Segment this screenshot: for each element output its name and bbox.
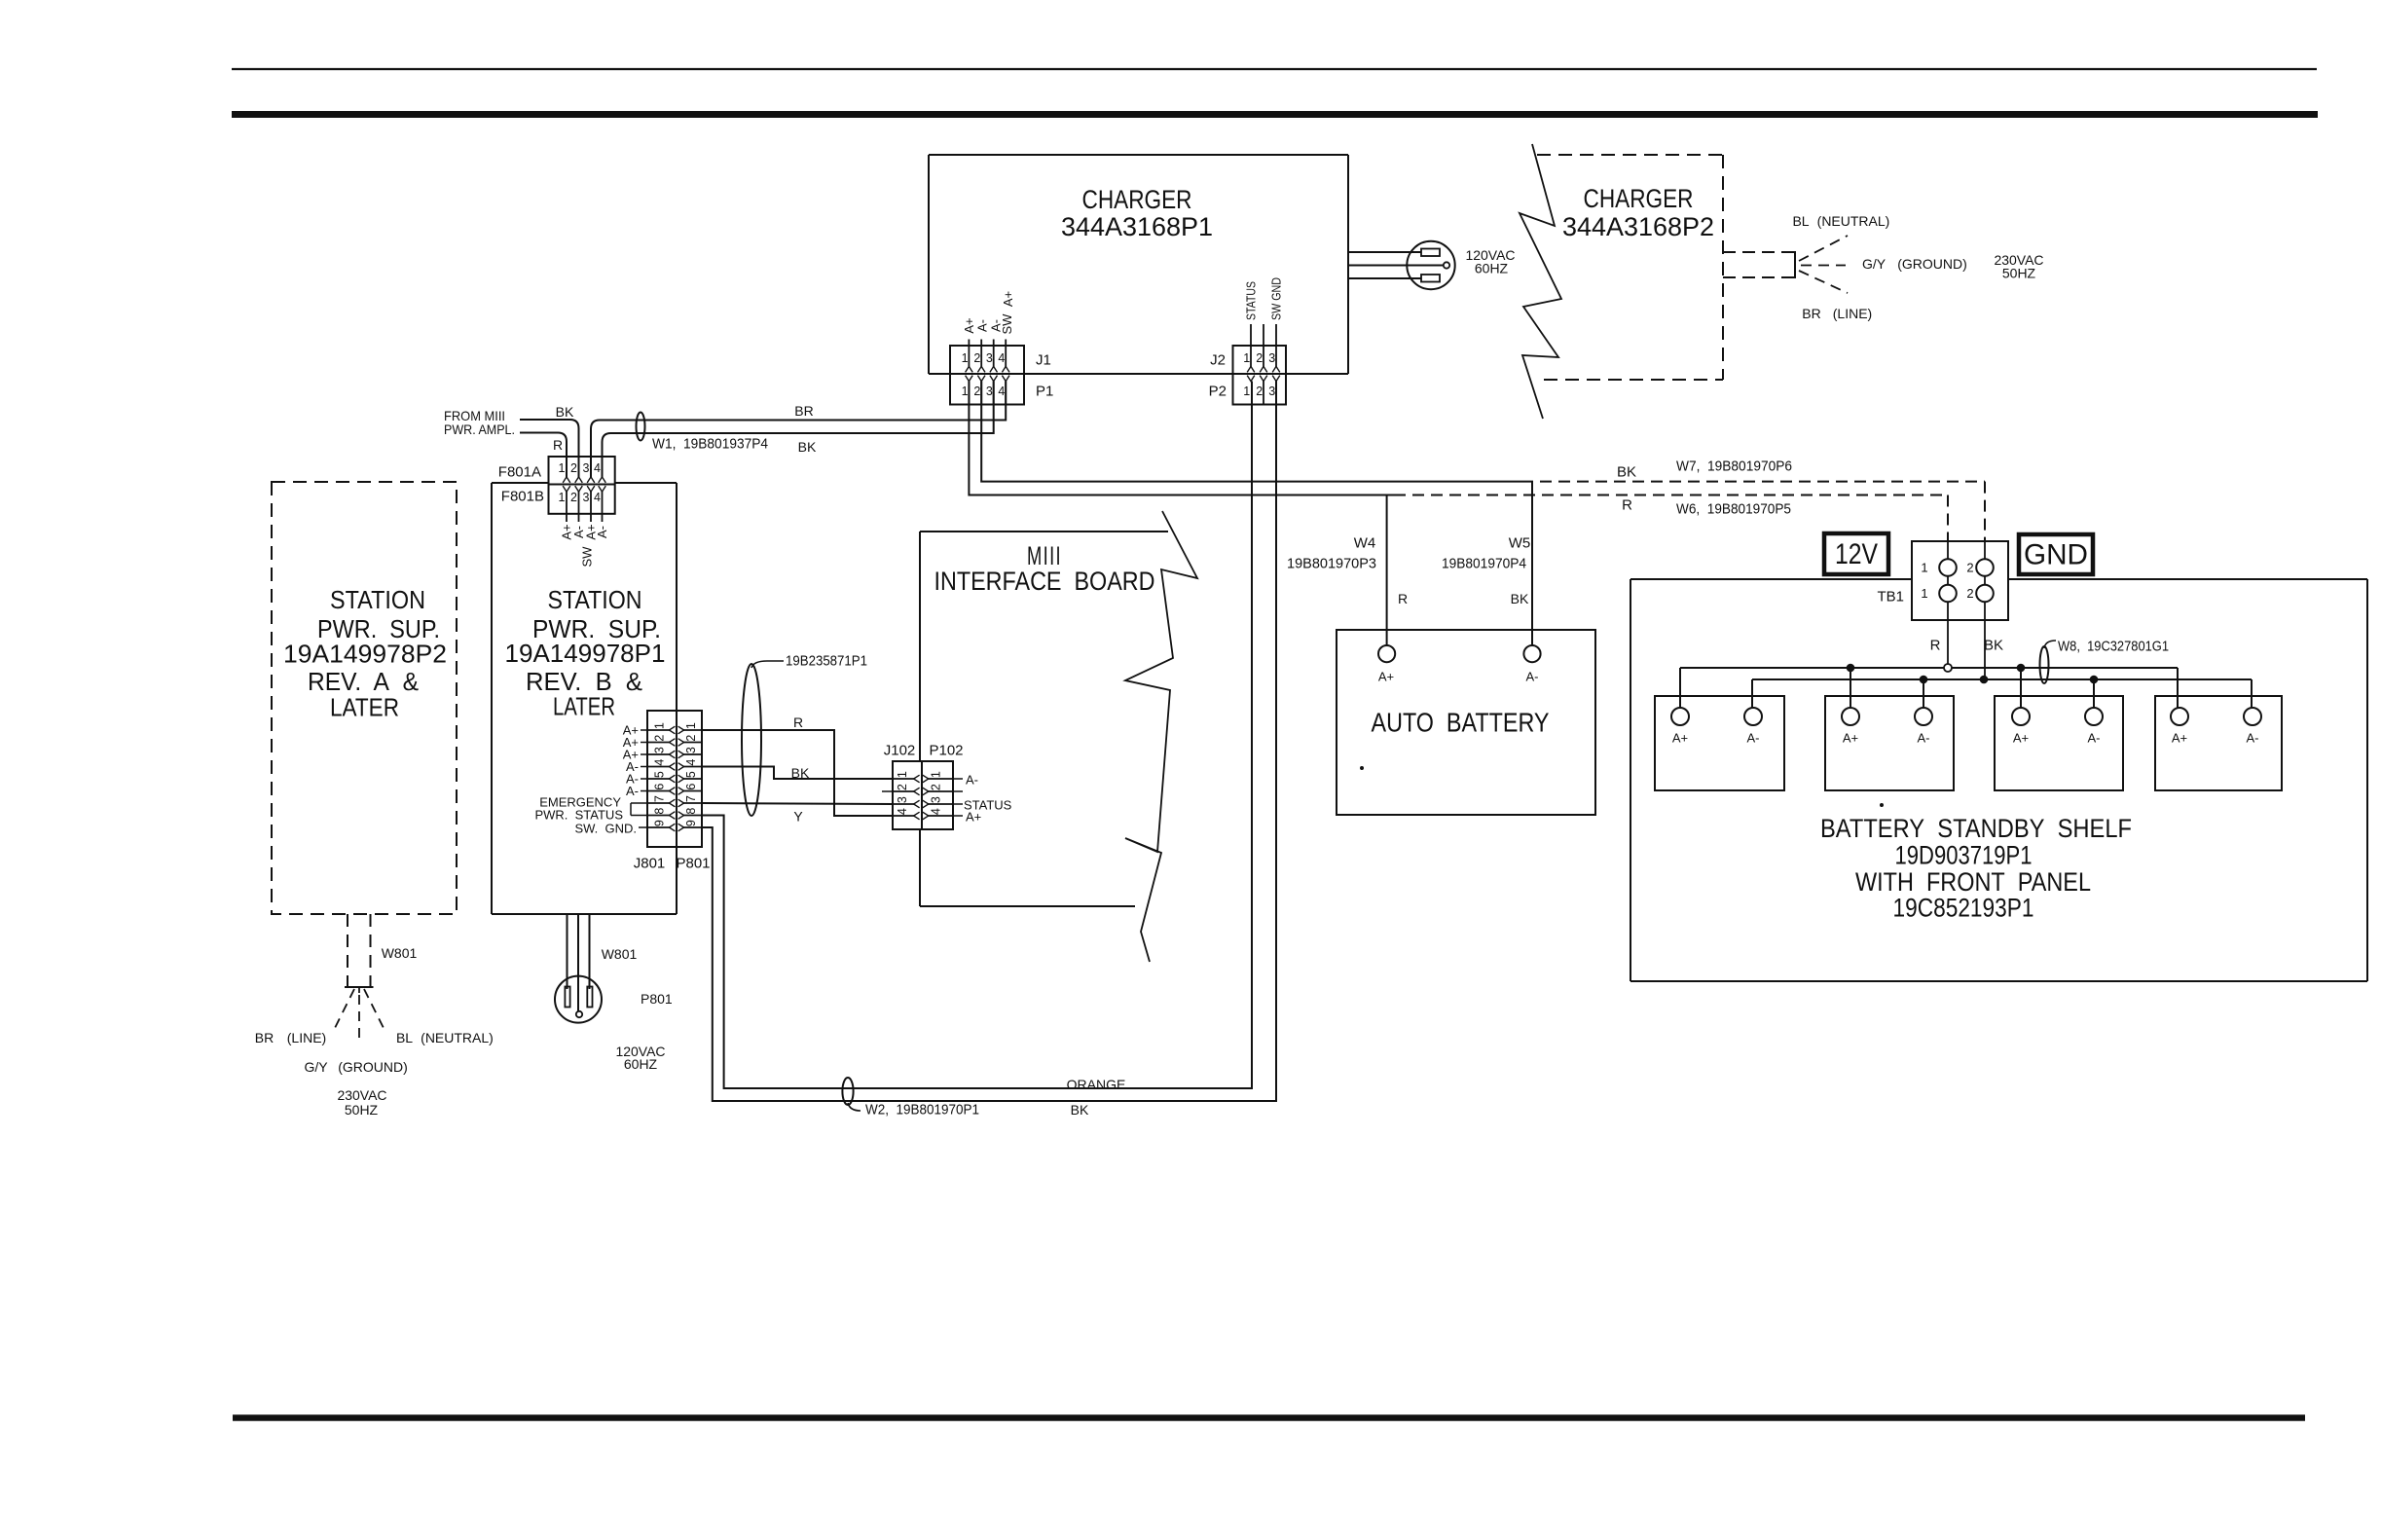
svg-text:J801: J801 bbox=[634, 856, 666, 872]
svg-text:BL: BL bbox=[396, 1030, 413, 1045]
svg-text:BK: BK bbox=[556, 404, 574, 420]
svg-text:BK: BK bbox=[1511, 591, 1529, 606]
svg-text:(NEUTRAL): (NEUTRAL) bbox=[421, 1030, 494, 1045]
svg-text:19D903719P1: 19D903719P1 bbox=[1895, 841, 2033, 870]
svg-text:A-: A- bbox=[975, 319, 990, 332]
svg-text:R: R bbox=[793, 715, 803, 730]
svg-text:SW: SW bbox=[580, 546, 595, 568]
svg-text:(NEUTRAL): (NEUTRAL) bbox=[1817, 213, 1890, 229]
svg-text:50HZ: 50HZ bbox=[345, 1102, 379, 1118]
svg-text:A+: A+ bbox=[1843, 731, 1858, 746]
svg-text:3: 3 bbox=[930, 796, 943, 803]
svg-text:SW. GND.: SW. GND. bbox=[574, 822, 637, 836]
svg-text:A+: A+ bbox=[966, 810, 981, 825]
svg-text:1: 1 bbox=[962, 385, 969, 398]
svg-text:PWR. STATUS: PWR. STATUS bbox=[534, 808, 623, 823]
svg-text:1: 1 bbox=[930, 771, 943, 778]
svg-text:ORANGE: ORANGE bbox=[1067, 1077, 1126, 1092]
svg-text:344A3168P1: 344A3168P1 bbox=[1061, 212, 1213, 241]
svg-text:3: 3 bbox=[684, 747, 698, 753]
svg-text:R: R bbox=[1930, 638, 1941, 654]
svg-text:19C852193P1: 19C852193P1 bbox=[1893, 894, 2034, 923]
svg-text:4: 4 bbox=[930, 808, 943, 815]
svg-text:W1, 19B801937P4: W1, 19B801937P4 bbox=[652, 436, 768, 453]
svg-text:7: 7 bbox=[653, 795, 667, 802]
svg-text:2: 2 bbox=[570, 491, 577, 504]
svg-text:6: 6 bbox=[653, 784, 667, 790]
svg-text:1: 1 bbox=[653, 722, 667, 729]
svg-text:2: 2 bbox=[973, 351, 980, 365]
svg-text:2: 2 bbox=[930, 784, 943, 790]
svg-text:1: 1 bbox=[684, 722, 698, 729]
svg-text:W2, 19B801970P1: W2, 19B801970P1 bbox=[865, 1102, 979, 1118]
svg-text:A+: A+ bbox=[1001, 291, 1015, 307]
svg-text:1: 1 bbox=[896, 771, 909, 778]
svg-text:2: 2 bbox=[653, 735, 667, 742]
svg-text:BATTERY STANDBY SHELF: BATTERY STANDBY SHELF bbox=[1820, 814, 2132, 843]
svg-text:A+: A+ bbox=[1672, 731, 1688, 746]
svg-text:G/Y: G/Y bbox=[1862, 256, 1886, 272]
svg-text:3: 3 bbox=[1268, 385, 1275, 398]
svg-text:G/Y: G/Y bbox=[304, 1059, 328, 1075]
svg-text:A-: A- bbox=[595, 526, 609, 538]
svg-text:W6, 19B801970P5: W6, 19B801970P5 bbox=[1676, 501, 1791, 518]
svg-text:P801: P801 bbox=[676, 856, 710, 872]
svg-text:2: 2 bbox=[896, 784, 909, 790]
svg-text:1: 1 bbox=[1243, 385, 1250, 398]
svg-text:3: 3 bbox=[1268, 351, 1275, 365]
svg-text:4: 4 bbox=[998, 351, 1005, 365]
svg-text:STATION: STATION bbox=[548, 585, 642, 614]
svg-text:PWR. AMPL.: PWR. AMPL. bbox=[444, 422, 515, 437]
svg-text:J102: J102 bbox=[884, 743, 916, 759]
svg-text:4: 4 bbox=[594, 461, 601, 475]
svg-text:BK: BK bbox=[1617, 464, 1636, 481]
svg-text:1: 1 bbox=[1921, 561, 1927, 575]
svg-text:4: 4 bbox=[594, 491, 601, 504]
svg-text:A-: A- bbox=[2088, 731, 2101, 746]
svg-text:R: R bbox=[1398, 591, 1408, 606]
svg-text:CHARGER: CHARGER bbox=[1584, 184, 1694, 213]
svg-text:R: R bbox=[1622, 497, 1632, 514]
svg-text:(LINE): (LINE) bbox=[1833, 306, 1872, 321]
svg-text:1: 1 bbox=[1243, 351, 1250, 365]
svg-text:A-: A- bbox=[626, 784, 639, 798]
svg-text:SW GND: SW GND bbox=[1269, 277, 1284, 320]
svg-text:BK: BK bbox=[1071, 1102, 1089, 1118]
svg-text:BR: BR bbox=[255, 1030, 274, 1045]
svg-text:(GROUND): (GROUND) bbox=[338, 1059, 408, 1075]
svg-text:STATUS: STATUS bbox=[1244, 281, 1259, 320]
svg-text:1: 1 bbox=[962, 351, 969, 365]
svg-text:W801: W801 bbox=[382, 945, 418, 961]
svg-text:REV. A &: REV. A & bbox=[308, 667, 419, 696]
svg-text:P801: P801 bbox=[641, 991, 673, 1007]
svg-text:STATION: STATION bbox=[330, 585, 425, 614]
svg-text:5: 5 bbox=[653, 771, 667, 778]
svg-text:3: 3 bbox=[583, 461, 590, 475]
svg-text:2: 2 bbox=[1966, 586, 1973, 601]
svg-text:BK: BK bbox=[791, 765, 810, 781]
svg-text:2: 2 bbox=[1256, 385, 1263, 398]
svg-text:8: 8 bbox=[653, 808, 667, 815]
svg-text:Y: Y bbox=[793, 809, 803, 825]
svg-text:19B801970P3: 19B801970P3 bbox=[1287, 556, 1376, 572]
svg-text:344A3168P2: 344A3168P2 bbox=[1562, 212, 1714, 241]
svg-text:60HZ: 60HZ bbox=[624, 1056, 658, 1072]
svg-text:A-: A- bbox=[2247, 731, 2259, 746]
svg-text:A+: A+ bbox=[2013, 731, 2029, 746]
svg-text:6: 6 bbox=[684, 784, 698, 790]
svg-text:230VAC: 230VAC bbox=[337, 1087, 386, 1103]
svg-text:3: 3 bbox=[896, 796, 909, 803]
svg-text:J2: J2 bbox=[1210, 352, 1226, 369]
svg-text:INTERFACE BOARD: INTERFACE BOARD bbox=[934, 567, 1155, 596]
svg-text:19A149978P2: 19A149978P2 bbox=[283, 640, 447, 669]
svg-text:50HZ: 50HZ bbox=[2002, 266, 2036, 281]
svg-text:4: 4 bbox=[896, 808, 909, 815]
svg-text:5: 5 bbox=[684, 771, 698, 778]
svg-text:BR: BR bbox=[1802, 306, 1820, 321]
svg-text:9: 9 bbox=[684, 820, 698, 826]
svg-text:7: 7 bbox=[684, 795, 698, 802]
svg-text:2: 2 bbox=[973, 385, 980, 398]
svg-text:2: 2 bbox=[1256, 351, 1263, 365]
svg-text:4: 4 bbox=[653, 759, 667, 766]
svg-text:LATER: LATER bbox=[330, 693, 399, 722]
svg-text:F801B: F801B bbox=[501, 489, 544, 505]
svg-text:4: 4 bbox=[998, 385, 1005, 398]
svg-text:J1: J1 bbox=[1036, 352, 1051, 369]
svg-text:19B235871P1: 19B235871P1 bbox=[786, 653, 867, 670]
svg-text:BL: BL bbox=[1792, 213, 1809, 229]
svg-text:W7, 19B801970P6: W7, 19B801970P6 bbox=[1676, 458, 1792, 475]
svg-text:A-: A- bbox=[966, 773, 978, 788]
svg-text:A-: A- bbox=[1747, 731, 1760, 746]
svg-text:1: 1 bbox=[1921, 586, 1927, 601]
svg-text:W4: W4 bbox=[1354, 535, 1376, 552]
svg-text:(LINE): (LINE) bbox=[287, 1030, 326, 1045]
svg-text:BR: BR bbox=[794, 403, 813, 419]
svg-text:SW: SW bbox=[1000, 313, 1014, 335]
svg-text:60HZ: 60HZ bbox=[1475, 261, 1509, 276]
svg-text:BK: BK bbox=[798, 439, 817, 455]
svg-text:WITH FRONT PANEL: WITH FRONT PANEL bbox=[1855, 867, 2091, 897]
svg-text:2: 2 bbox=[684, 735, 698, 742]
svg-text:3: 3 bbox=[583, 491, 590, 504]
svg-text:F801A: F801A bbox=[498, 464, 541, 481]
svg-text:R: R bbox=[553, 437, 563, 453]
svg-text:W8, 19C327801G1: W8, 19C327801G1 bbox=[2058, 639, 2169, 655]
svg-text:A-: A- bbox=[1918, 731, 1930, 746]
svg-text:8: 8 bbox=[684, 808, 698, 815]
svg-text:3: 3 bbox=[653, 747, 667, 753]
svg-text:19A149978P1: 19A149978P1 bbox=[505, 639, 666, 668]
svg-text:A+: A+ bbox=[1378, 670, 1394, 684]
svg-text:1: 1 bbox=[559, 491, 566, 504]
svg-text:P1: P1 bbox=[1036, 384, 1053, 400]
svg-text:CHARGER: CHARGER bbox=[1082, 185, 1192, 214]
svg-text:19B801970P4: 19B801970P4 bbox=[1442, 556, 1526, 572]
svg-text:4: 4 bbox=[684, 759, 698, 766]
svg-text:2: 2 bbox=[570, 461, 577, 475]
svg-text:3: 3 bbox=[986, 351, 993, 365]
svg-text:12V: 12V bbox=[1835, 538, 1878, 570]
svg-text:9: 9 bbox=[653, 820, 667, 826]
svg-text:P102: P102 bbox=[929, 743, 963, 759]
svg-text:1: 1 bbox=[559, 461, 566, 475]
svg-text:P2: P2 bbox=[1209, 384, 1227, 400]
svg-text:A-: A- bbox=[1526, 670, 1539, 684]
svg-text:A+: A+ bbox=[2172, 731, 2187, 746]
svg-text:W801: W801 bbox=[602, 946, 638, 962]
svg-text:2: 2 bbox=[1966, 561, 1973, 575]
svg-text:W5: W5 bbox=[1509, 535, 1531, 552]
svg-text:AUTO BATTERY: AUTO BATTERY bbox=[1372, 708, 1550, 738]
svg-text:GND: GND bbox=[2024, 539, 2088, 571]
svg-text:(GROUND): (GROUND) bbox=[1897, 256, 1967, 272]
svg-text:TB1: TB1 bbox=[1877, 589, 1904, 605]
svg-text:3: 3 bbox=[986, 385, 993, 398]
svg-text:LATER: LATER bbox=[553, 692, 615, 721]
svg-text:BK: BK bbox=[1984, 638, 2003, 654]
